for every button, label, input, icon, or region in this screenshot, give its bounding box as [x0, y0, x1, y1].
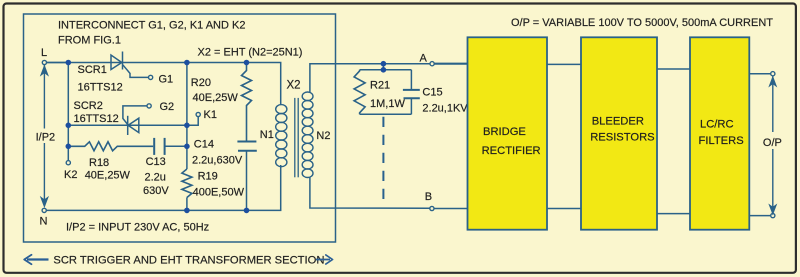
svg-text:2.2u: 2.2u	[145, 172, 166, 184]
svg-text:FILTERS: FILTERS	[699, 135, 744, 147]
svg-text:C15: C15	[422, 87, 442, 99]
wire A to bridge	[434, 63, 467, 65]
R21 C15 bottom bracket	[360, 113, 412, 115]
svg-text:N1: N1	[260, 129, 274, 141]
svg-text:R19: R19	[198, 171, 218, 183]
terminal G1	[149, 75, 153, 79]
capacitor C15	[403, 90, 420, 98]
SCR1 cathode bar	[122, 52, 124, 70]
svg-text:C14: C14	[194, 139, 214, 151]
terminal A	[430, 62, 434, 66]
input line L-N with arrows	[41, 65, 47, 206]
svg-text:40E,25W: 40E,25W	[85, 169, 131, 181]
svg-text:SCR TRIGGER AND EHT TRANSFORME: SCR TRIGGER AND EHT TRANSFORMER SECTION	[53, 254, 324, 266]
SCR2 triangle	[128, 118, 139, 132]
svg-text:2.2u,630V: 2.2u,630V	[192, 154, 243, 166]
transformer N2 winding	[302, 92, 313, 178]
SCR2 wire row	[68, 124, 187, 126]
svg-text:BRIDGE: BRIDGE	[483, 126, 526, 138]
wire bridge to bleeder bottom	[547, 208, 581, 210]
svg-text:G1: G1	[159, 74, 174, 86]
top wire	[47, 63, 281, 106]
caption arrow left	[24, 255, 48, 264]
wire bridge to bleeder top	[547, 63, 581, 65]
terminal G2	[147, 104, 151, 108]
svg-text:B: B	[425, 191, 432, 203]
svg-text:K2: K2	[64, 169, 77, 181]
svg-text:A: A	[420, 52, 428, 64]
svg-text:SCR2: SCR2	[74, 100, 103, 112]
svg-text:RECTIFIER: RECTIFIER	[482, 145, 541, 157]
SCR1 triangle	[111, 55, 122, 70]
svg-text:R18: R18	[89, 157, 109, 169]
N2 bottom lead and B wire	[310, 177, 430, 208]
right rail	[186, 63, 188, 170]
svg-text:K1: K1	[204, 109, 217, 121]
svg-text:N2: N2	[316, 130, 330, 142]
svg-text:X2: X2	[287, 79, 301, 91]
terminal K2	[66, 161, 70, 165]
SCR trigger section box	[24, 14, 336, 242]
svg-text:N: N	[40, 215, 48, 227]
terminal B	[430, 206, 434, 210]
svg-text:630V: 630V	[143, 185, 169, 197]
svg-text:FROM FIG.1: FROM FIG.1	[58, 35, 121, 47]
SCR2 gate wire	[123, 106, 147, 125]
svg-text:LC/RC: LC/RC	[700, 119, 734, 131]
resistor R20	[242, 63, 252, 142]
svg-text:16TTS12: 16TTS12	[78, 82, 123, 94]
dashed line to B	[382, 117, 384, 203]
transformer N1 winding	[276, 105, 287, 167]
SCR1 gate wire	[123, 65, 149, 78]
R21 C15 top bracket	[360, 69, 412, 71]
svg-text:BLEEDER: BLEEDER	[592, 115, 644, 127]
svg-text:1M,1W: 1M,1W	[370, 98, 405, 110]
caption arrow right	[316, 255, 333, 264]
wire B to bridge	[434, 208, 468, 210]
K1 stub	[187, 117, 198, 126]
capacitor C13	[154, 138, 164, 155]
rail to bottom	[186, 198, 188, 211]
capacitor C14	[237, 142, 256, 151]
N2 top lead and A wire	[310, 64, 430, 93]
wire L to node	[47, 62, 69, 64]
block bleeder resistors	[581, 37, 657, 229]
svg-text:INTERCONNECT G1, G2, K1 AND K2: INTERCONNECT G1, G2, K1 AND K2	[58, 20, 245, 32]
transformer core	[295, 98, 298, 177]
svg-text:40E,25W: 40E,25W	[193, 92, 239, 104]
svg-text:SCR1: SCR1	[78, 64, 107, 76]
K2 stub	[67, 146, 69, 160]
terminal K1	[196, 112, 200, 116]
svg-text:O/P: O/P	[763, 137, 782, 149]
resistor R21	[354, 70, 365, 115]
C13 right wire	[165, 145, 187, 147]
svg-text:I/P2: I/P2	[36, 131, 56, 143]
svg-text:R20: R20	[191, 77, 211, 89]
C14 bottom wire	[246, 151, 248, 211]
wire filters to OP bottom	[749, 215, 770, 217]
wire bleeder to filters top	[657, 68, 690, 70]
svg-text:2.2u,1KV: 2.2u,1KV	[422, 103, 468, 115]
SCR2 cathode bar	[127, 116, 129, 135]
svg-text:G2: G2	[160, 101, 175, 113]
svg-text:L: L	[41, 47, 47, 59]
R21 C15 top stub	[382, 64, 384, 70]
svg-text:R21: R21	[370, 79, 390, 91]
OP arrow line	[770, 76, 776, 213]
svg-text:400E,50W: 400E,50W	[193, 186, 245, 198]
terminal N	[42, 208, 46, 212]
svg-text:C13: C13	[146, 156, 166, 168]
block lc rc filters	[690, 37, 749, 229]
terminal L	[42, 60, 46, 64]
svg-text:16TTS12: 16TTS12	[74, 113, 119, 125]
left rail	[67, 63, 69, 147]
svg-text:O/P = VARIABLE 100V TO 5000V,: O/P = VARIABLE 100V TO 5000V, 500mA CURR…	[511, 17, 773, 29]
block bridge rectifier	[468, 37, 548, 229]
terminal OP top	[771, 72, 775, 76]
resistor R18	[68, 142, 153, 151]
wire filters to OP top	[749, 73, 770, 75]
svg-text:I/P2 = INPUT 230V AC, 50Hz: I/P2 = INPUT 230V AC, 50Hz	[66, 222, 209, 234]
bottom wire	[46, 165, 280, 210]
resistor R19	[182, 169, 192, 198]
junction dots	[66, 60, 387, 214]
terminal OP bottom	[771, 214, 775, 218]
C15 upper wire	[410, 70, 412, 90]
wire bleeder to filters bottom	[657, 213, 690, 215]
svg-text:X2 = EHT (N2=25N1): X2 = EHT (N2=25N1)	[198, 46, 303, 58]
C15 lower wire	[410, 98, 412, 114]
svg-text:RESISTORS: RESISTORS	[590, 131, 654, 143]
